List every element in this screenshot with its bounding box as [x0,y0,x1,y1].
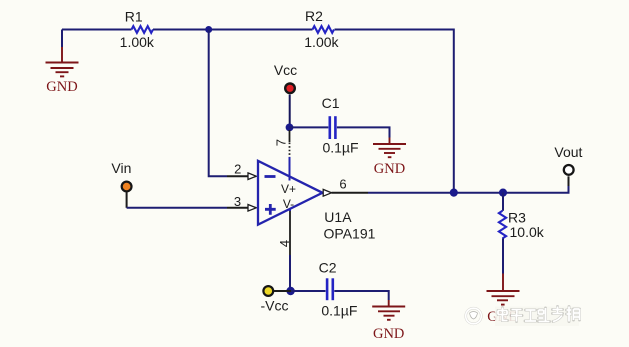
svg-text:3: 3 [234,194,241,209]
wire R3 to GND4 [502,238,504,273]
svg-text:OPA191: OPA191 [324,225,376,241]
wire Vcc to junction [289,95,291,125]
svg-text:4: 4 [277,240,292,247]
op-amp minus input sign [265,175,276,178]
wire top net GND1 to R1 [62,29,132,31]
svg-text:10.0k: 10.0k [510,224,545,240]
watermark logo circle [466,308,482,324]
pin 2 arrowhead [248,173,256,180]
wire R2 to feedback corner down to output net [335,30,454,193]
svg-text:C2: C2 [319,260,337,276]
resistor R3 [499,211,506,239]
pin 2 stub [227,175,249,177]
junction R3/output [499,189,507,197]
watermark text white pass [498,307,580,322]
pin 4 stub [289,211,291,255]
svg-text:2: 2 [234,162,241,177]
ground GND2 [373,138,406,158]
wire output net to Vout [368,186,569,193]
wire junction to C2 [291,290,326,292]
pin 3 arrowhead [248,205,256,212]
svg-text:V-: V- [283,197,294,211]
pin 7 stub [289,130,291,142]
wire Vin stub down [126,192,128,208]
pin 6 output arrowhead [323,189,331,196]
pin 6 stub [332,192,369,194]
node A junction dot [205,26,212,33]
watermark text outline pass [498,307,580,322]
svg-text:Vcc: Vcc [274,62,297,78]
terminal Vout [564,165,574,175]
wire junction to R3 [502,193,504,211]
ground GND4 [487,274,520,305]
pin 7 dotted segment [289,143,291,158]
junction feedback/output [450,189,458,197]
svg-text:7: 7 [273,139,288,146]
watermark backdrop [495,307,579,327]
resistor R1 [132,26,154,33]
junction -Vcc/C2 [286,287,294,295]
ground GND3 [372,300,405,320]
svg-text:U1A: U1A [324,209,352,225]
svg-text:Vout: Vout [554,144,582,160]
wire pin 4 to junction [289,255,291,291]
op-amp U1 triangle [258,161,323,225]
terminal Vin [122,182,132,192]
wire GND1 stub [61,30,63,48]
svg-text:1.00k: 1.00k [304,34,339,50]
svg-text:6: 6 [339,177,346,192]
capacitor C1 [330,116,336,139]
wire C1 to GND2 [337,127,390,137]
resistor R2 [313,26,335,33]
svg-text:R3: R3 [508,209,526,225]
svg-text:0.1µF: 0.1µF [321,302,357,318]
op-amp plus input sign [265,204,276,215]
pin 7 blue segment [289,157,291,181]
wire junction to C1 [290,126,329,128]
svg-text:GND: GND [373,326,404,342]
pin 3 stub [227,207,249,209]
svg-text:-Vcc: -Vcc [261,297,289,313]
svg-text:V+: V+ [281,182,296,196]
svg-text:Vin: Vin [111,160,131,176]
svg-text:R1: R1 [125,9,143,25]
pin 4 blue segment [289,209,291,212]
wire C2 to GND3 [334,291,388,300]
svg-text:0.1µF: 0.1µF [322,139,358,155]
wire node A down to pin 2 [209,30,227,177]
capacitor C2 [327,278,333,300]
wire Vout stub [568,176,570,186]
terminal -Vcc [263,286,273,296]
svg-text:R2: R2 [305,8,323,24]
svg-text:1.00k: 1.00k [120,34,155,50]
ground GND1 [46,47,79,76]
svg-text:GND: GND [374,161,405,177]
wire Vin to pin 3 [127,207,227,209]
junction pin7/C1 [286,124,294,132]
wire -Vcc to junction [274,290,291,292]
svg-text:GND: GND [46,79,77,95]
svg-text:C1: C1 [322,95,340,111]
wire R1 to node A [153,29,313,31]
terminal Vcc [285,84,295,94]
